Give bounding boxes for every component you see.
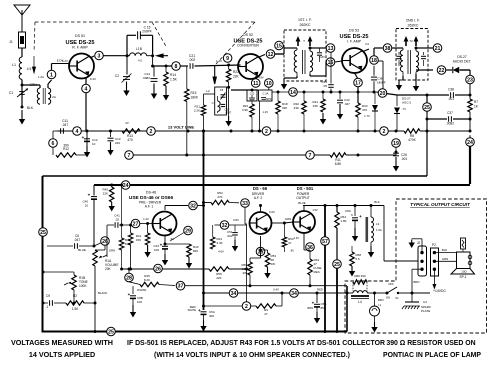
node 26 volume [101, 237, 115, 253]
resistor R33 470 [356, 103, 370, 133]
svg-text:L3: L3 [376, 222, 380, 226]
node 6 and R12 390 [49, 131, 87, 157]
capacitor C43 100 [153, 242, 168, 265]
base lead DS66 [246, 222, 248, 225]
svg-text:38: 38 [385, 46, 391, 52]
svg-text:24: 24 [467, 140, 473, 146]
svg-text:PLATE: PLATE [421, 309, 430, 313]
trimmer C5 osc [220, 89, 226, 100]
svg-text:0.4V: 0.4V [273, 288, 279, 292]
resistor R2 1.5K [62, 290, 97, 311]
wire T1 primary top [275, 48, 297, 54]
svg-text:240: 240 [115, 141, 120, 145]
svg-text:4: 4 [76, 129, 79, 135]
bias wire [272, 91, 380, 94]
svg-text:4.6V: 4.6V [218, 250, 224, 254]
svg-text:850: 850 [321, 306, 326, 310]
svg-text:32: 32 [190, 203, 196, 209]
diode DS-27 audio det [446, 55, 471, 73]
svg-text:(WITH 14 VOLTS INPUT & 10 OHM: (WITH 14 VOLTS INPUT & 10 OHM SPEAKER CO… [154, 352, 350, 359]
heavy vertical 337 [336, 206, 338, 213]
svg-text:T: T [303, 39, 305, 43]
svg-text:33K: 33K [282, 106, 287, 110]
svg-text:262KC: 262KC [300, 23, 311, 27]
collector wire DS501 [303, 200, 384, 211]
resistor R44 3.3K [211, 225, 225, 254]
svg-text:10: 10 [92, 142, 96, 146]
connector P2 [431, 243, 439, 276]
transistor DS52 converter [238, 54, 263, 79]
svg-text:DS-46: DS-46 [146, 191, 156, 195]
capacitor C8C [345, 206, 362, 242]
lamp fuse box [461, 238, 466, 252]
connector J1 [9, 32, 25, 48]
T1 secondary coil [310, 48, 313, 74]
node 19 [392, 130, 401, 153]
resistor R42 8.2K [119, 184, 131, 271]
svg-text:2.4V: 2.4V [294, 236, 300, 240]
svg-text:1.7V: 1.7V [364, 114, 370, 118]
wire x427 up [426, 130, 429, 177]
svg-text:3.9K: 3.9K [242, 108, 248, 112]
resistor R66 390 [353, 274, 367, 291]
wire GRN to speaker [434, 257, 456, 262]
svg-text:R14: R14 [170, 73, 176, 77]
svg-text:A.F. 1: A.F. 1 [145, 205, 154, 209]
svg-text:L2: L2 [206, 89, 210, 93]
svg-text:2: 2 [265, 129, 268, 135]
T1 core [303, 50, 306, 74]
node 2 audio [202, 302, 251, 311]
svg-text:9: 9 [226, 56, 229, 62]
svg-text:R15: R15 [191, 91, 197, 95]
svg-text:390: 390 [63, 144, 69, 148]
node 16 [310, 55, 342, 76]
resistor R31 33K [312, 92, 326, 125]
svg-text:2: 2 [383, 129, 386, 135]
13 volt line [57, 130, 470, 132]
wire R22 bottom [225, 87, 231, 126]
speaker SP-1 [451, 252, 475, 279]
T2 primary coil [400, 48, 403, 76]
oscillator box [215, 87, 227, 115]
capacitor C12 10 [82, 131, 98, 158]
wire junction [187, 130, 233, 133]
wire [151, 65, 176, 68]
svg-text:+: + [198, 308, 201, 313]
svg-text:22K: 22K [216, 276, 221, 280]
B+ heavy line [202, 130, 205, 311]
svg-text:WHITE: WHITE [188, 308, 197, 312]
svg-text:4.5: 4.5 [27, 67, 32, 71]
svg-text:12: 12 [268, 52, 274, 58]
svg-text:27K: 27K [217, 195, 222, 199]
transistor DS46 [153, 212, 177, 236]
antenna coil secondary [37, 88, 56, 104]
svg-text:BRN: BRN [378, 298, 384, 302]
svg-text:28: 28 [126, 275, 132, 281]
svg-text:27: 27 [133, 221, 139, 227]
svg-text:ON: ON [386, 296, 390, 300]
node 32 second [215, 218, 249, 302]
switch S1 [386, 282, 414, 300]
T2 right cap [421, 52, 426, 66]
svg-text:1.5K: 1.5K [72, 307, 79, 311]
svg-text:34: 34 [231, 291, 237, 297]
diode DS-27 AGC-2 [394, 95, 412, 131]
wire [469, 119, 472, 133]
oscillator coil L2 [212, 96, 220, 113]
resistor R13 470 on line [122, 121, 140, 142]
wire WHITE C8B [128, 286, 147, 318]
svg-text:1.5K: 1.5K [170, 78, 178, 82]
svg-text:BLUE: BLUE [298, 201, 305, 205]
svg-text:DS 51: DS 51 [75, 34, 85, 38]
svg-text:.002: .002 [189, 58, 196, 62]
svg-text:+: + [82, 135, 85, 140]
label DS52 [234, 33, 263, 48]
tuning gang C2A [258, 87, 272, 133]
svg-text:17: 17 [355, 80, 361, 86]
capacitor C35 .05 [321, 52, 333, 93]
svg-text:J1: J1 [9, 40, 13, 44]
svg-text:26: 26 [155, 266, 161, 272]
volume pot R1A [93, 245, 119, 271]
svg-text:TYPICAL OUTPUT CIRCUIT: TYPICAL OUTPUT CIRCUIT [410, 202, 471, 207]
svg-text:262KC: 262KC [408, 24, 419, 28]
svg-text:GRN: GRN [442, 257, 448, 261]
node 2 third [380, 127, 389, 136]
node 15 [271, 41, 284, 54]
node 25 bottom [107, 327, 116, 336]
dashed link drop 2 [152, 22, 168, 57]
svg-text:25: 25 [334, 262, 340, 268]
svg-text:DS 52: DS 52 [243, 33, 253, 37]
emitter DS501 [294, 233, 304, 250]
svg-text:390 Ω RESISTOR USED ON: 390 Ω RESISTOR USED ON [386, 340, 475, 347]
output circuit dashed box [345, 199, 487, 333]
inductor L1 [12, 57, 31, 79]
node 34 line [204, 288, 348, 295]
node 7 second [306, 151, 315, 160]
resistor R7 1K [468, 95, 479, 119]
T2 secondary coil [416, 48, 419, 74]
svg-text:4.8V: 4.8V [258, 76, 264, 80]
svg-text:IF DS-501 IS REPLACED, ADJUST: IF DS-501 IS REPLACED, ADJUST R43 FOR 1.… [127, 340, 385, 347]
J2 top pin ground [409, 239, 423, 253]
trimmer C1 [9, 89, 28, 98]
voltage label [62, 59, 96, 81]
svg-text:14 VOLTS APPLIED: 14 VOLTS APPLIED [29, 350, 95, 359]
svg-text:.002: .002 [227, 234, 233, 238]
capacitor C40 10 [82, 185, 97, 248]
svg-text:+: + [128, 292, 131, 297]
node 57 [321, 237, 330, 246]
collector wire DS66 [259, 204, 275, 214]
svg-text:BLK: BLK [374, 200, 379, 204]
capacitor C26 .001 [393, 153, 407, 161]
svg-text:6.2V: 6.2V [62, 59, 68, 63]
caption voltages [11, 338, 113, 359]
svg-text:1: 1 [50, 72, 53, 78]
label DS51 [66, 34, 95, 50]
svg-text:DS 53: DS 53 [349, 29, 359, 33]
emitter wire [164, 236, 175, 246]
svg-text:BRN: BRN [414, 280, 420, 284]
transistor DS501 [293, 208, 318, 233]
node 24 on heavy line [121, 181, 130, 190]
resistor R18 33K [276, 92, 288, 133]
svg-text:VOLTAGES MEASURED WITH: VOLTAGES MEASURED WITH [11, 338, 113, 347]
capacitor C6 .047 [47, 234, 101, 252]
svg-text:R. F. AMP: R. F. AMP [72, 46, 88, 50]
coil L4 [351, 291, 375, 304]
svg-text:43K: 43K [294, 106, 299, 110]
tuning gang C22 [247, 90, 257, 101]
transistor DS51 [69, 54, 94, 79]
wire BLACK [95, 266, 108, 332]
svg-text:22K: 22K [233, 75, 240, 79]
svg-text:1.4V: 1.4V [143, 217, 149, 221]
svg-text:21: 21 [435, 46, 441, 52]
svg-text:BLACK: BLACK [98, 291, 108, 295]
dashed gang link [35, 21, 256, 23]
node 25 right [423, 94, 432, 177]
resistor R21 2.2K [194, 89, 215, 131]
svg-text:.001: .001 [448, 97, 454, 101]
svg-text:15K: 15K [136, 238, 141, 242]
node 21 [415, 44, 442, 53]
svg-text:10: 10 [266, 81, 272, 87]
svg-text:OUTPUT: OUTPUT [296, 196, 310, 200]
svg-text:22K: 22K [103, 192, 108, 196]
J2 bottom wire BRN [412, 269, 422, 293]
heavy vertical 327 [324, 206, 326, 332]
svg-text:82PF: 82PF [266, 98, 272, 101]
T1 primary coil [294, 48, 297, 76]
node 27 [129, 217, 152, 228]
svg-text:7: 7 [128, 153, 131, 159]
wire speaker feed [346, 292, 354, 295]
wire [21, 80, 38, 108]
svg-text:DS - 66: DS - 66 [253, 186, 268, 191]
svg-text:100K: 100K [79, 284, 87, 288]
svg-text:13: 13 [328, 46, 334, 52]
ground [393, 157, 399, 172]
svg-text:.001: .001 [401, 157, 407, 161]
svg-text:L1: L1 [12, 63, 16, 67]
svg-text:GRN: GRN [285, 217, 291, 221]
svg-text:.0082: .0082 [142, 76, 150, 80]
wire [395, 152, 397, 155]
svg-text:33K: 33K [313, 104, 318, 108]
resistor R15 180K [185, 66, 199, 131]
svg-text:.047: .047 [344, 102, 350, 106]
svg-text:47: 47 [288, 241, 292, 245]
svg-text:16: 16 [328, 60, 334, 66]
capacitor C9 .1 [42, 294, 63, 309]
label DS501 [296, 186, 314, 200]
audio box right border [346, 286, 348, 332]
node 17 [354, 73, 363, 103]
resistor R63 47 fuse [304, 250, 322, 287]
svg-text:8: 8 [175, 64, 178, 70]
T1 slug arrows [296, 36, 313, 46]
resistor R56 100 2W [241, 236, 260, 287]
resistor R43 820 [165, 244, 199, 269]
svg-text:34: 34 [291, 291, 297, 297]
node 34 second [273, 288, 298, 298]
svg-text:R66 390: R66 390 [354, 274, 366, 278]
capacitor C13 240 [107, 131, 121, 156]
wire [231, 89, 258, 92]
svg-text:1.8K: 1.8K [341, 219, 347, 223]
node 11 and 10 [251, 76, 273, 88]
svg-text:RED: RED [317, 288, 323, 292]
svg-text:R7: R7 [474, 100, 478, 104]
resistor R53 68 1W [259, 249, 276, 279]
svg-text:BLK: BLK [442, 248, 447, 252]
svg-text:DS - 501: DS - 501 [297, 186, 314, 191]
svg-text:1.4V: 1.4V [216, 59, 222, 63]
svg-text:6.8V: 6.8V [233, 218, 239, 222]
node 26 line [122, 268, 209, 270]
svg-text:+: + [312, 300, 315, 305]
svg-text:AUDIO DET.: AUDIO DET. [453, 60, 472, 64]
svg-text:.05: .05 [323, 84, 328, 88]
svg-text:22: 22 [439, 68, 445, 74]
capacitor C51 .002 [227, 225, 239, 252]
svg-text:C2: C2 [115, 74, 119, 78]
svg-text:L4: L4 [358, 300, 362, 304]
title typical output circuit [410, 202, 471, 207]
svg-text:I 1: I 1 [378, 303, 382, 307]
svg-text:23: 23 [467, 77, 473, 83]
node 38 [383, 44, 403, 53]
wire collector tank [127, 35, 136, 55]
svg-text:2ND I. F.: 2ND I. F. [406, 19, 420, 23]
wire BLK to speaker [434, 248, 456, 253]
node 4 on line [73, 127, 112, 136]
svg-text:5.8V: 5.8V [319, 55, 325, 59]
node 3 [90, 51, 129, 60]
svg-text:6.8K: 6.8K [335, 162, 342, 166]
node 14 [289, 88, 298, 97]
svg-text:4V: 4V [125, 121, 129, 125]
T1 cap [317, 48, 322, 62]
svg-text:33: 33 [242, 201, 248, 207]
svg-text:10Ω: 10Ω [461, 270, 466, 274]
svg-text:OFF: OFF [388, 282, 394, 286]
capacitor C15 200PF [138, 26, 153, 55]
svg-text:1.2V: 1.2V [263, 110, 269, 114]
dashed link drop 3 [213, 22, 255, 84]
svg-text:.0047: .0047 [225, 111, 232, 115]
junction BLK [21, 106, 35, 111]
resistor R41 15K [128, 225, 141, 271]
caption 390 ohm [383, 340, 481, 359]
svg-text:25: 25 [424, 105, 430, 111]
svg-text:C9: C9 [46, 294, 50, 298]
node 2 first [147, 125, 195, 136]
svg-text:.0082: .0082 [446, 122, 454, 126]
node 20 [375, 89, 387, 98]
resistor R11 6.8K [330, 151, 398, 167]
svg-text:BLUE: BLUE [78, 248, 86, 252]
diode bias [372, 93, 378, 133]
audio box border [43, 176, 428, 332]
connector J2 [417, 241, 427, 276]
svg-text:.047: .047 [62, 123, 69, 127]
svg-text:J2: J2 [417, 241, 421, 245]
svg-text:.02: .02 [115, 218, 120, 222]
svg-text:A.F. 2: A.F. 2 [254, 196, 263, 200]
node 34 first [229, 289, 238, 298]
transformer T1 box [284, 18, 326, 81]
label DS46 [129, 191, 174, 209]
svg-text:27: 27 [264, 312, 268, 316]
svg-text:+: + [88, 193, 91, 198]
transformer T2 box [396, 19, 428, 81]
svg-text:6: 6 [52, 141, 55, 147]
svg-text:C 2A: C 2A [263, 92, 269, 96]
svg-text:1W: 1W [271, 262, 276, 266]
capacitor C23 .0047 [221, 104, 232, 114]
svg-text:+: + [359, 214, 362, 219]
svg-text:7: 7 [309, 153, 312, 159]
svg-text:1.2A: 1.2A [38, 75, 44, 79]
wire from transistor to line [86, 130, 88, 132]
antenna [14, 5, 30, 32]
capacitor C21 .002 [189, 54, 241, 69]
svg-text:AGC-2: AGC-2 [402, 101, 412, 105]
svg-text:SP-1: SP-1 [459, 275, 466, 279]
svg-text:100: 100 [154, 248, 159, 252]
svg-text:8.2K: 8.2K [144, 278, 150, 282]
node 22 [416, 66, 446, 75]
node 9 [216, 54, 232, 63]
node 25 left border [39, 228, 48, 237]
wire x95 bottom [94, 330, 97, 333]
svg-text:.8V: .8V [290, 249, 294, 253]
node 1 [47, 64, 69, 89]
choke L3 [366, 206, 382, 247]
capacitor C14 .0082 [142, 66, 157, 81]
wire and C37 .0082 [426, 111, 472, 126]
capacitor C4 spark plate [402, 293, 431, 313]
svg-text:DS-27: DS-27 [457, 55, 467, 59]
capacitor C5B 850 [308, 292, 327, 324]
svg-text:2A: 2A [52, 95, 56, 99]
svg-text:GRN: GRN [109, 249, 115, 253]
ground [123, 82, 129, 97]
svg-text:14: 14 [290, 90, 296, 96]
T2 ground right [413, 74, 419, 92]
capacitor C33 .047 [337, 92, 350, 120]
node 8 [172, 62, 188, 71]
dashed link drop 1 [32, 22, 44, 79]
svg-text:25: 25 [108, 329, 114, 335]
svg-text:4: 4 [85, 86, 88, 92]
svg-text:O: O [212, 102, 214, 105]
svg-text:15: 15 [276, 43, 282, 49]
svg-text:37: 37 [178, 284, 184, 290]
capacitor C5A 400 [188, 305, 215, 332]
svg-text:1.6A: 1.6A [376, 228, 382, 232]
svg-text:C4: C4 [423, 300, 427, 304]
ground [368, 246, 374, 258]
svg-text:PONTIAC IN PLACE OF LAMP: PONTIAC IN PLACE OF LAMP [383, 352, 481, 359]
